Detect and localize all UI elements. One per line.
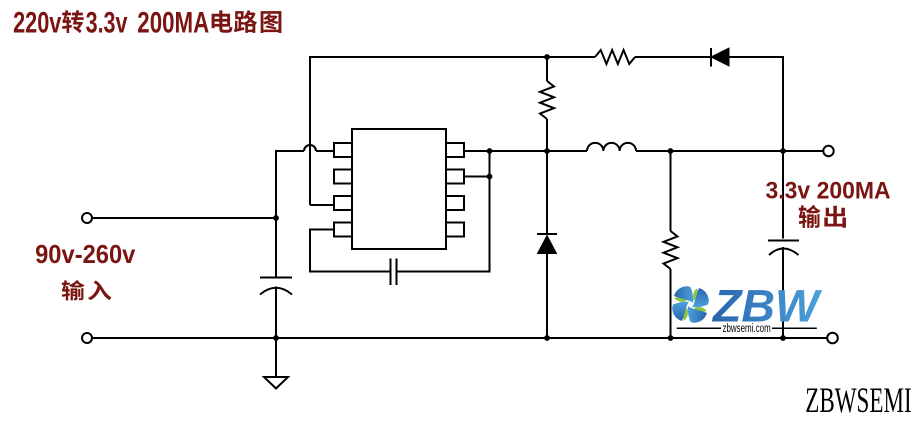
wire pin4 to bypass loop — [310, 230, 390, 272]
node riser pin5 — [487, 174, 493, 180]
node rail C3 — [780, 148, 786, 154]
wire hop over vertical feedback wire — [304, 145, 316, 151]
capacitor C3 — [768, 151, 799, 338]
node input-cap junction — [273, 215, 279, 221]
IC U1 pin 5 right — [446, 223, 464, 237]
IC U1 pin 2 left — [334, 170, 352, 184]
diode D1 — [711, 48, 729, 67]
svg-text:90v-260v: 90v-260v — [35, 239, 136, 269]
label 输入 — [62, 280, 112, 300]
IC U1 pin 4 left — [334, 223, 352, 237]
node rail R3 — [668, 148, 674, 154]
wire inductor to output terminal — [636, 150, 823, 152]
IC U1 pin 6 right — [446, 196, 464, 210]
label 输出 — [799, 205, 846, 228]
capacitor C1 — [260, 218, 292, 338]
wire D1 to right drop — [729, 57, 783, 149]
IC U1 pin 8 right — [446, 143, 464, 157]
inductor L1 — [587, 143, 636, 151]
svg-text:ZBWSEMI: ZBWSEMI — [805, 381, 911, 420]
IC U1 pin 3 left — [334, 196, 352, 210]
wire to pin3 — [310, 204, 334, 206]
wire hop to pin1 — [316, 150, 334, 152]
resistor R3 — [664, 151, 678, 338]
wire pin8 to output rail — [464, 150, 490, 152]
wire top-left vertical from top rail to pin3 — [310, 57, 547, 205]
wire input branch up to pin1 row — [276, 151, 304, 218]
terminal output positive — [823, 146, 833, 156]
node bottom C3 — [780, 335, 786, 341]
node rail R2 bottom — [544, 148, 550, 154]
svg-text:220v: 220v — [13, 6, 62, 39]
diode D2 — [537, 151, 557, 338]
ground — [264, 338, 288, 389]
IC U1 pin 7 right — [446, 170, 464, 184]
node bottom R3 — [668, 335, 674, 341]
IC U1 pin 1 left — [334, 143, 352, 157]
capacitor C2 — [391, 259, 397, 286]
wire input top — [92, 217, 276, 219]
resistor R1 — [595, 50, 635, 64]
watermark logo underline and url — [677, 323, 817, 335]
wire R1 to diode D1 — [635, 56, 711, 58]
wire rail to inductor — [490, 150, 588, 152]
watermark logo pinwheel — [672, 286, 709, 323]
wire pin5 to riser — [464, 176, 490, 178]
wire bottom rail — [92, 337, 827, 339]
svg-text:3.3v: 3.3v — [86, 6, 128, 39]
terminal input neutral — [82, 333, 92, 343]
resistor R2 — [540, 57, 554, 151]
node riser rail — [487, 148, 493, 154]
title text 220v转3.3v 200MA电路图 — [13, 6, 281, 39]
terminal input live — [82, 213, 92, 223]
node bottom D2 — [544, 335, 550, 341]
svg-text:3.3v 200MA: 3.3v 200MA — [766, 178, 891, 205]
node top rail / R2 — [544, 54, 550, 60]
wire C2 to right riser — [397, 151, 490, 272]
node bottom C1 — [273, 335, 279, 341]
svg-text:zbwsemi.com: zbwsemi.com — [723, 323, 771, 335]
terminal output negative — [827, 333, 838, 344]
svg-text:200MA: 200MA — [137, 6, 209, 39]
IC U1 body — [352, 129, 446, 249]
wire top rail to resistor R1 — [547, 56, 595, 58]
